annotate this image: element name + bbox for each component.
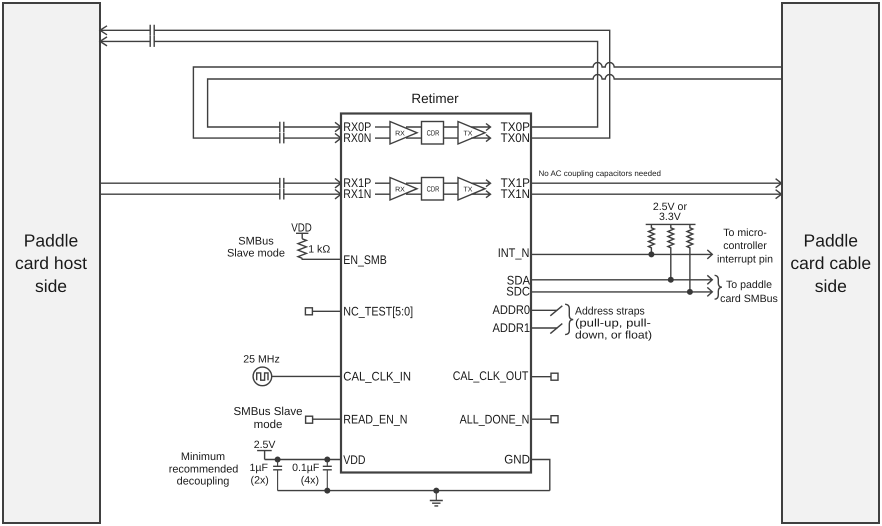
resistor R4 pullup SDC [687, 224, 693, 292]
wire TX1N to cable [532, 193, 781, 195]
svg-text:INT_N: INT_N [498, 246, 530, 260]
wire RX0N stub to amp [375, 137, 390, 139]
svg-text:recommended: recommended [169, 463, 239, 475]
junction SDC R4 [687, 289, 693, 295]
power rail 2.5V or 3.3V [646, 201, 696, 224]
CDR block lane1 [422, 178, 444, 201]
svg-text:VDD: VDD [291, 220, 312, 234]
svg-text:(pull-up, pull-: (pull-up, pull- [575, 317, 651, 329]
svg-text:1µF: 1µF [250, 462, 269, 474]
op-amp TX lane0 [458, 122, 485, 145]
svg-text:No AC coupling capacitors need: No AC coupling capacitors needed [539, 169, 662, 178]
svg-text:GND: GND [504, 453, 530, 467]
arrow into retimer RX1P [335, 179, 341, 188]
host paddle card block [3, 3, 100, 523]
arrow into retimer RX0N [335, 133, 341, 142]
svg-text:1 kΩ: 1 kΩ [308, 243, 330, 255]
svg-text:Address straps: Address straps [575, 305, 645, 317]
arrow into host TX0N [100, 26, 107, 35]
note minimum recommended decoupling [169, 451, 239, 488]
svg-text:controller: controller [723, 240, 767, 252]
capacitor C4 AC coupling RX0P [280, 122, 284, 133]
value 0.1uF (4x) [292, 462, 320, 486]
note SMBus slave mode (EN_SMB) [227, 236, 285, 260]
svg-text:card host: card host [15, 253, 87, 273]
wire SDC [532, 287, 712, 296]
svg-text:TX: TX [464, 187, 473, 194]
wire ALL_DONE_N [532, 418, 551, 420]
svg-text:(2x): (2x) [251, 474, 269, 486]
wire TX1P to cable [532, 182, 781, 184]
svg-text:RX: RX [395, 187, 405, 194]
svg-text:card cable: card cable [790, 253, 871, 273]
wire ADDR1 [532, 327, 558, 329]
power 2.5V supply symbol [254, 439, 277, 460]
wire TX amp out arrows lane1 [471, 180, 491, 198]
brace SMBus [715, 275, 722, 299]
svg-text:NC_TEST[5:0]: NC_TEST[5:0] [343, 304, 413, 318]
note SMBus slave mode (READ_EN_N) [233, 406, 302, 431]
svg-text:decoupling: decoupling [177, 476, 230, 488]
arrow into host TX0P [100, 37, 107, 46]
svg-text:To paddle: To paddle [726, 279, 772, 291]
junction VDD C7 [275, 457, 281, 463]
wire R1 to EN_SMB [302, 258, 341, 259]
svg-text:CDR: CDR [427, 128, 440, 137]
cable paddle card block [782, 3, 879, 523]
svg-text:mode: mode [254, 419, 283, 431]
svg-text:interrupt pin: interrupt pin [717, 253, 773, 265]
CDR block lane0 [422, 122, 444, 145]
brace address straps [565, 304, 573, 334]
wire SDA [532, 275, 712, 284]
strap slash ADDR0 [550, 306, 562, 316]
svg-text:25 MHz: 25 MHz [243, 354, 280, 366]
svg-text:CDR: CDR [427, 185, 440, 194]
wire RX1P from host [100, 182, 341, 184]
svg-text:EN_SMB: EN_SMB [343, 253, 387, 267]
terminal NC_TEST square [305, 308, 312, 315]
value 1uF (2x) [250, 462, 269, 486]
op-amp TX lane1 [458, 178, 485, 201]
svg-text:RX0N: RX0N [343, 131, 371, 145]
wire VDD rail [265, 459, 341, 461]
op-amp RX lane0 [390, 122, 417, 145]
svg-text:3.3V: 3.3V [659, 211, 682, 223]
wire RX amp to CDR lane0 [406, 127, 422, 138]
wire GND pin to rail [532, 460, 550, 491]
op-amp RX lane1 [390, 178, 417, 201]
svg-text:TX0N: TX0N [501, 131, 530, 145]
terminal ALL_DONE_N square [551, 416, 558, 423]
junction rail C8 [324, 488, 330, 494]
wire INT_N [532, 250, 712, 259]
svg-text:0.1µF: 0.1µF [292, 462, 320, 474]
svg-text:Paddle: Paddle [804, 230, 859, 250]
capacitor C2 AC coupling TX0P [150, 36, 154, 47]
wire ADDR0 [532, 309, 558, 311]
svg-text:RX1N: RX1N [343, 187, 371, 201]
svg-text:2.5V: 2.5V [254, 439, 277, 451]
capacitor C5 AC coupling RX1P [280, 178, 284, 189]
svg-text:TX: TX [464, 131, 473, 138]
wire RX1P stub to amp [375, 182, 390, 184]
arrow into cable TX1N [776, 190, 782, 199]
power VDD symbol above R1 [291, 220, 312, 238]
note address straps [575, 305, 652, 341]
wire TX0P feedback to host [100, 41, 598, 127]
svg-text:ADDR1: ADDR1 [493, 321, 531, 335]
wire CDR to TX amp lane1 [444, 183, 459, 194]
wire oscillator to CAL_CLK_IN [272, 375, 341, 377]
wire NC_TEST [312, 310, 341, 312]
svg-text:To micro-: To micro- [723, 227, 767, 239]
junction VDD C8 [324, 457, 330, 463]
strap slash ADDR1 [550, 324, 562, 334]
svg-text:SMBus Slave: SMBus Slave [233, 406, 302, 418]
resistor R1 1 kOhm [298, 239, 306, 259]
terminal READ_EN_N square [306, 416, 313, 423]
wire RX0P stub to amp [375, 126, 390, 128]
retimer U1 box [341, 91, 531, 473]
capacitor C8 0.1uF [323, 460, 332, 491]
svg-text:Minimum: Minimum [181, 451, 225, 463]
junction SDA R3 [668, 277, 674, 283]
svg-text:CAL_CLK_IN: CAL_CLK_IN [343, 369, 411, 383]
svg-text:VDD: VDD [343, 453, 365, 467]
arrow into retimer RX1N [335, 190, 341, 199]
svg-text:SDC: SDC [506, 285, 530, 299]
wire TX0N feedback to host [100, 30, 610, 138]
capacitor C6 AC coupling RX1N [280, 189, 284, 200]
svg-text:side: side [815, 276, 847, 296]
svg-text:Paddle: Paddle [24, 230, 79, 250]
svg-text:card SMBus: card SMBus [720, 293, 778, 305]
svg-text:READ_EN_N: READ_EN_N [343, 413, 407, 427]
wire READ_EN_N [312, 418, 341, 420]
svg-text:ADDR0: ADDR0 [493, 303, 531, 317]
svg-text:TX1N: TX1N [501, 187, 530, 201]
capacitor C1 AC coupling TX0N [150, 25, 154, 36]
arrow into retimer RX0P [335, 122, 341, 131]
svg-text:RX: RX [395, 131, 405, 138]
wire CAL_CLK_OUT [532, 376, 551, 378]
resistor R3 pullup SDA [668, 224, 674, 279]
junction ground [433, 488, 439, 494]
ground symbol [430, 491, 443, 506]
junction INT_N R2 [648, 251, 654, 257]
note to paddle card SMBus [720, 279, 778, 305]
svg-text:CAL_CLK_OUT: CAL_CLK_OUT [453, 369, 529, 383]
svg-text:SMBus: SMBus [238, 236, 274, 248]
capacitor C7 1uF [273, 460, 282, 491]
svg-text:ALL_DONE_N: ALL_DONE_N [460, 413, 530, 427]
oscillator Y1 25 MHz [253, 367, 272, 386]
wire RX1N stub to amp [375, 193, 390, 195]
svg-text:down, or float): down, or float) [575, 329, 652, 341]
svg-text:side: side [35, 276, 67, 296]
wire CDR to TX amp lane0 [444, 127, 459, 138]
wire RX0P from cable (inner loop) [208, 75, 782, 128]
svg-text:Slave mode: Slave mode [227, 248, 285, 260]
resistor R2 pullup INT_N [649, 224, 655, 254]
svg-text:Retimer: Retimer [411, 91, 459, 106]
wire ground rail [278, 490, 550, 492]
note to microcontroller interrupt pin [717, 227, 773, 265]
wire RX0N from cable (outer loop) [193, 63, 782, 139]
wire RX1N from host [100, 193, 341, 195]
capacitor C3 AC coupling RX0N [280, 133, 284, 144]
arrow into cable TX1P [776, 179, 782, 188]
svg-text:(4x): (4x) [301, 474, 319, 486]
terminal CAL_CLK_OUT square [551, 373, 558, 380]
wire TX amp out arrows lane0 [471, 124, 491, 142]
wire RX amp to CDR lane1 [406, 183, 422, 194]
